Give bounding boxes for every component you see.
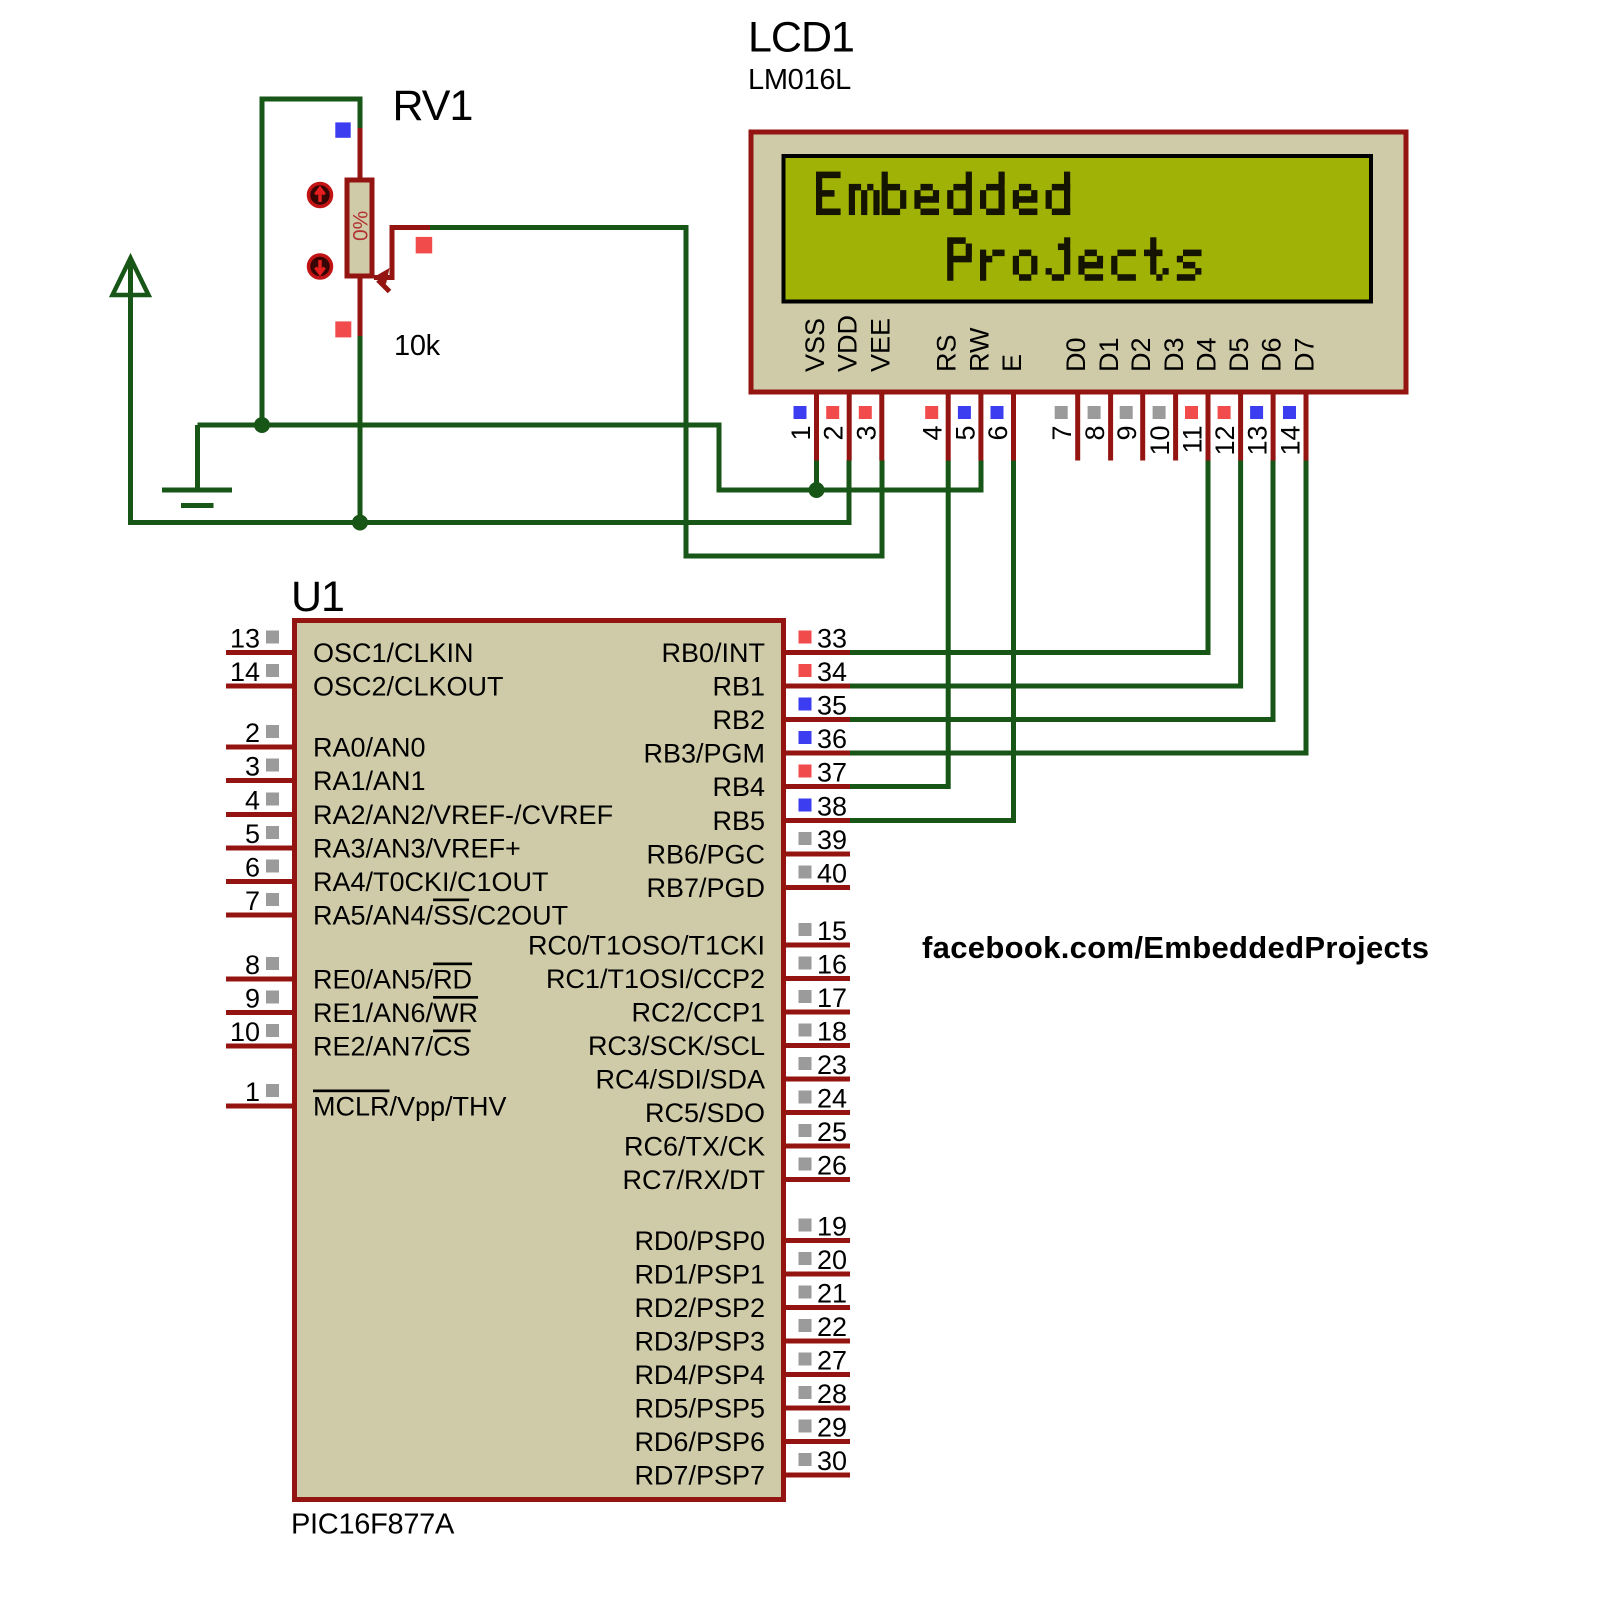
svg-text:RA4/T0CKI/C1OUT: RA4/T0CKI/C1OUT [313, 867, 549, 897]
U1 pin 20 [634, 1245, 850, 1290]
svg-text:10: 10 [230, 1017, 260, 1047]
svg-text:35: 35 [817, 691, 847, 721]
LCD LCD1 body [751, 132, 1406, 392]
node junction pot bottom / +5V [352, 515, 368, 531]
wire RB1 to D5 [850, 460, 1241, 686]
svg-text:RA5/AN4/SS/C2OUT: RA5/AN4/SS/C2OUT [313, 901, 568, 931]
U1 pin 23 [595, 1050, 850, 1095]
U1 pin 24 [645, 1084, 850, 1129]
svg-text:facebook.com/EmbeddedProjects: facebook.com/EmbeddedProjects [922, 930, 1429, 965]
LCD1 pin 14 (D7) [1276, 337, 1320, 460]
wire RB2 to D6 [850, 460, 1273, 720]
svg-text:4: 4 [245, 786, 260, 816]
svg-text:28: 28 [817, 1379, 847, 1409]
svg-text:25: 25 [817, 1117, 847, 1147]
U1 pin 8 [226, 950, 472, 995]
svg-text:RB0/INT: RB0/INT [661, 638, 765, 668]
wire RB4 to RS [850, 460, 948, 787]
svg-text:8: 8 [1080, 426, 1110, 441]
U1 pin 28 [634, 1379, 850, 1424]
svg-text:RC1/T1OSI/CCP2: RC1/T1OSI/CCP2 [546, 964, 765, 994]
svg-text:D6: D6 [1257, 337, 1287, 372]
svg-text:40: 40 [817, 859, 847, 889]
U1 pin 18 [588, 1017, 850, 1062]
svg-text:1: 1 [245, 1077, 260, 1107]
U1 pin 5 [226, 819, 521, 864]
svg-text:37: 37 [817, 758, 847, 788]
U1 pin 15 [528, 916, 850, 961]
svg-text:34: 34 [817, 657, 847, 687]
svg-text:RE0/AN5/RD: RE0/AN5/RD [313, 965, 472, 995]
wire RV1 top loop to ground net [262, 99, 360, 425]
LCD1 pin 1 (VSS) [786, 318, 830, 461]
LCD1 pin 10 (D3) [1145, 337, 1189, 460]
RV1 bottom marker red [335, 321, 351, 337]
LCD1 pin 4 (RS) [918, 334, 962, 460]
LCD1 pin 2 (VDD) [819, 315, 863, 461]
wire pot bottom to +5V [358, 333, 363, 523]
wire ground stub [195, 425, 200, 488]
svg-text:RB7/PGD: RB7/PGD [646, 873, 765, 903]
svg-text:OSC2/CLKOUT: OSC2/CLKOUT [313, 672, 504, 702]
svg-text:D1: D1 [1094, 337, 1124, 372]
svg-text:D4: D4 [1192, 337, 1222, 372]
U1 pin 17 [631, 983, 850, 1028]
svg-text:RD1/PSP1: RD1/PSP1 [634, 1260, 765, 1290]
svg-text:1: 1 [786, 426, 816, 441]
svg-text:RD0/PSP0: RD0/PSP0 [634, 1226, 765, 1256]
LCD1 pin 7 (D0) [1047, 337, 1091, 460]
svg-text:6: 6 [983, 426, 1013, 441]
svg-text:2: 2 [819, 426, 849, 441]
svg-text:9: 9 [1112, 426, 1142, 441]
svg-text:VSS: VSS [800, 318, 830, 372]
svg-text:VDD: VDD [833, 315, 863, 372]
IC U1 PIC16F877A body [295, 621, 784, 1500]
svg-text:3: 3 [851, 426, 881, 441]
svg-text:RD2/PSP2: RD2/PSP2 [634, 1293, 765, 1323]
U1 pin 3 [226, 752, 426, 797]
U1 pin 9 [226, 984, 478, 1029]
wire wiper to VEE [429, 228, 882, 557]
U1 pin 38 [712, 792, 850, 837]
svg-text:30: 30 [817, 1446, 847, 1476]
svg-text:U1: U1 [291, 573, 344, 621]
RV1 down button [309, 255, 332, 278]
svg-text:2: 2 [245, 718, 260, 748]
LCD1 screen [784, 156, 1372, 302]
svg-text:29: 29 [817, 1413, 847, 1443]
svg-text:14: 14 [230, 657, 260, 687]
U1 pin 7 [226, 886, 568, 931]
svg-text:7: 7 [1047, 426, 1077, 441]
RV1 terminal marker blue [335, 122, 350, 137]
svg-text:RA3/AN3/VREF+: RA3/AN3/VREF+ [313, 834, 521, 864]
svg-text:LCD1: LCD1 [748, 14, 854, 62]
LCD1 display text "Embedded" [816, 172, 1070, 215]
svg-text:9: 9 [245, 984, 260, 1014]
svg-text:RD6/PSP6: RD6/PSP6 [634, 1427, 765, 1457]
svg-text:D0: D0 [1061, 337, 1091, 372]
svg-text:36: 36 [817, 724, 847, 754]
svg-text:RA1/AN1: RA1/AN1 [313, 766, 426, 796]
svg-text:27: 27 [817, 1346, 847, 1376]
LCD1 pin 12 (D5) [1210, 337, 1254, 460]
node junction ground/loop [254, 417, 270, 433]
svg-text:RC5/SDO: RC5/SDO [645, 1098, 765, 1128]
svg-text:RC7/RX/DT: RC7/RX/DT [622, 1165, 765, 1195]
svg-text:16: 16 [817, 950, 847, 980]
wire RB3 to D7 [850, 460, 1306, 753]
LCD1 pin 11 (D4) [1178, 337, 1222, 460]
svg-text:33: 33 [817, 624, 847, 654]
svg-text:24: 24 [817, 1084, 847, 1114]
svg-text:20: 20 [817, 1245, 847, 1275]
svg-text:MCLR/Vpp/THV: MCLR/Vpp/THV [313, 1092, 507, 1122]
U1 pin 14 [226, 657, 504, 702]
U1 pin 25 [624, 1117, 850, 1162]
RV1 wiper marker red [416, 237, 433, 254]
svg-text:LM016L: LM016L [748, 64, 851, 96]
svg-text:RC2/CCP1: RC2/CCP1 [631, 998, 765, 1028]
svg-text:RB5: RB5 [712, 806, 765, 836]
LCD1 pin 8 (D1) [1080, 337, 1124, 460]
svg-text:12: 12 [1210, 426, 1240, 456]
power symbol +5V arrow [113, 258, 149, 295]
U1 pin 6 [226, 853, 549, 898]
LCD1 display text "Projects" [947, 237, 1201, 280]
svg-text:D2: D2 [1126, 337, 1156, 372]
svg-text:7: 7 [245, 886, 260, 916]
svg-text:4: 4 [918, 426, 948, 441]
svg-text:13: 13 [1243, 426, 1273, 456]
svg-text:5: 5 [950, 426, 980, 441]
svg-text:13: 13 [230, 624, 260, 654]
svg-text:15: 15 [817, 916, 847, 946]
svg-text:RV1: RV1 [393, 82, 473, 130]
svg-text:8: 8 [245, 950, 260, 980]
wire +5V line B [131, 271, 850, 523]
U1 pin 37 [712, 758, 850, 803]
U1 pin 4 [226, 786, 613, 831]
node junction VSS [809, 482, 825, 498]
svg-text:19: 19 [817, 1212, 847, 1242]
U1 pin 19 [634, 1212, 850, 1257]
wire VSS pin to ground [814, 460, 819, 490]
U1 pin 39 [646, 825, 850, 870]
U1 pin 16 [546, 950, 850, 995]
svg-text:RE2/AN7/CS: RE2/AN7/CS [313, 1032, 471, 1062]
svg-text:18: 18 [817, 1017, 847, 1047]
svg-text:RB6/PGC: RB6/PGC [646, 840, 765, 870]
svg-text:RW: RW [964, 327, 994, 372]
U1 pin 2 [226, 718, 426, 763]
U1 pin 34 [712, 657, 850, 702]
svg-text:RD7/PSP7: RD7/PSP7 [634, 1461, 765, 1491]
potentiometer RV1 [358, 128, 363, 180]
svg-text:D7: D7 [1290, 337, 1320, 372]
U1 pin 29 [634, 1413, 850, 1458]
svg-text:23: 23 [817, 1050, 847, 1080]
svg-text:6: 6 [245, 853, 260, 883]
svg-text:RB4: RB4 [712, 772, 765, 802]
U1 pin 13 [226, 624, 474, 669]
svg-text:RE1/AN6/WR: RE1/AN6/WR [313, 998, 478, 1028]
svg-text:3: 3 [245, 752, 260, 782]
svg-text:RC4/SDI/SDA: RC4/SDI/SDA [595, 1065, 765, 1095]
svg-text:14: 14 [1276, 426, 1306, 456]
svg-text:0%: 0% [350, 211, 373, 241]
svg-text:E: E [997, 354, 1027, 372]
U1 pin 36 [643, 724, 850, 769]
svg-text:D3: D3 [1159, 337, 1189, 372]
U1 pin 21 [634, 1279, 850, 1324]
svg-text:5: 5 [245, 819, 260, 849]
svg-text:10: 10 [1145, 426, 1175, 456]
svg-text:21: 21 [817, 1279, 847, 1309]
U1 pin 40 [646, 859, 850, 904]
wire RB5 to E [850, 460, 1014, 821]
svg-text:RB3/PGM: RB3/PGM [643, 739, 765, 769]
U1 pin 22 [634, 1312, 850, 1357]
svg-text:RD3/PSP3: RD3/PSP3 [634, 1327, 765, 1357]
U1 pin 30 [634, 1446, 850, 1491]
svg-text:RD4/PSP4: RD4/PSP4 [634, 1360, 765, 1390]
U1 pin 10 [226, 1017, 471, 1062]
svg-text:VEE: VEE [865, 318, 895, 372]
svg-text:39: 39 [817, 825, 847, 855]
svg-text:22: 22 [817, 1312, 847, 1342]
U1 pin 35 [712, 691, 850, 736]
svg-text:RC3/SCK/SCL: RC3/SCK/SCL [588, 1031, 765, 1061]
svg-text:RD5/PSP5: RD5/PSP5 [634, 1394, 765, 1424]
LCD1 pin 13 (D6) [1243, 337, 1287, 460]
svg-text:RA0/AN0: RA0/AN0 [313, 733, 426, 763]
U1 pin 1 [226, 1077, 507, 1122]
ground [162, 488, 232, 493]
U1 pin 33 [661, 624, 850, 669]
svg-text:PIC16F877A: PIC16F877A [291, 1509, 455, 1541]
svg-text:RC6/TX/CK: RC6/TX/CK [624, 1132, 765, 1162]
LCD1 pin 9 (D2) [1112, 337, 1156, 460]
svg-text:RS: RS [932, 334, 962, 372]
svg-text:38: 38 [817, 792, 847, 822]
svg-text:26: 26 [817, 1151, 847, 1181]
svg-text:RB2: RB2 [712, 705, 765, 735]
U1 pin 27 [634, 1346, 850, 1391]
svg-text:RA2/AN2/VREF-/CVREF: RA2/AN2/VREF-/CVREF [313, 800, 613, 830]
U1 pin 26 [622, 1151, 850, 1196]
RV1 wiper arrow [374, 228, 430, 278]
LCD1 pin 5 (RW) [950, 327, 994, 461]
svg-text:RB1: RB1 [712, 672, 765, 702]
wire ground line A [198, 425, 982, 490]
svg-text:RC0/T1OSO/T1CKI: RC0/T1OSO/T1CKI [528, 931, 765, 961]
svg-text:OSC1/CLKIN: OSC1/CLKIN [313, 638, 474, 668]
LCD1 pin 6 (E) [983, 354, 1027, 461]
wire RB0 to D4 [850, 460, 1208, 653]
svg-text:11: 11 [1178, 426, 1208, 454]
svg-text:D5: D5 [1224, 337, 1254, 372]
LCD1 pin 3 (VEE) [851, 318, 895, 461]
svg-text:17: 17 [817, 983, 847, 1013]
RV1 up button [309, 184, 332, 207]
svg-text:10k: 10k [394, 330, 441, 362]
